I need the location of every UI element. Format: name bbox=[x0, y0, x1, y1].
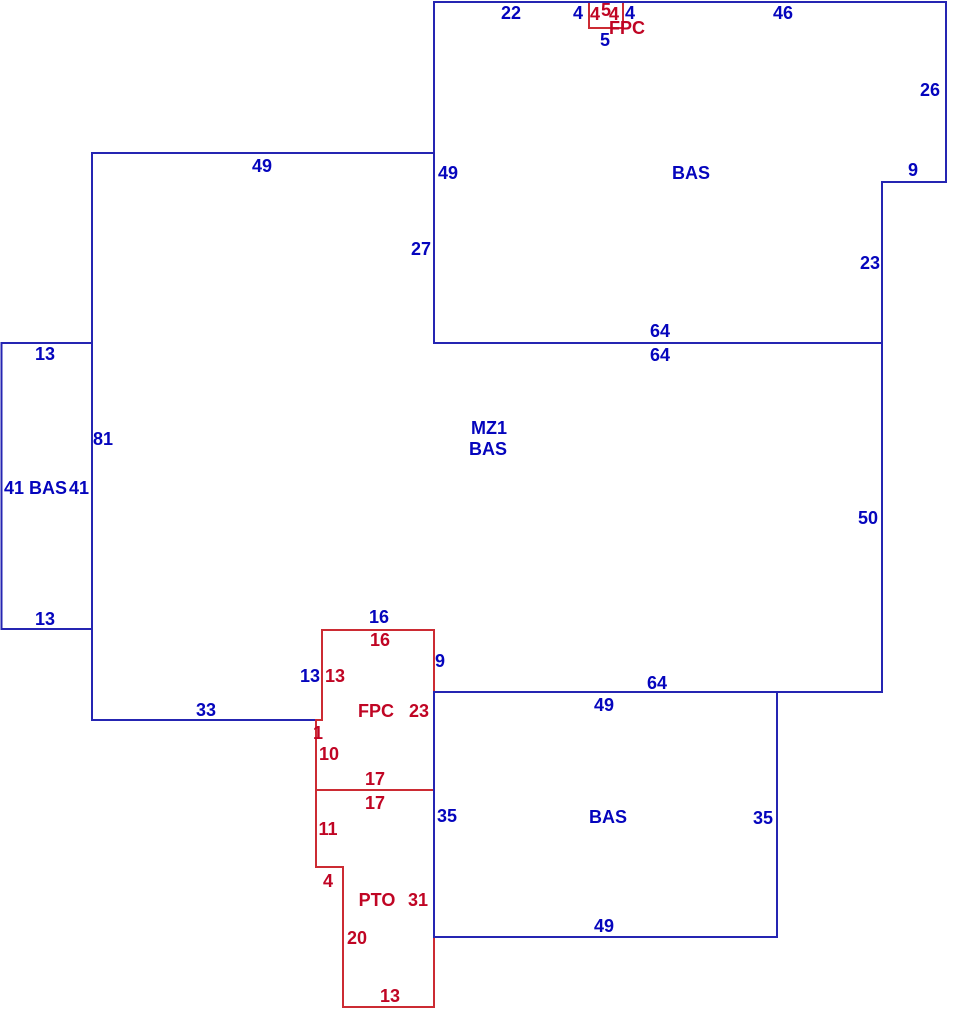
svg-text:33: 33 bbox=[196, 700, 216, 720]
svg-text:4: 4 bbox=[323, 871, 333, 891]
red FPC polygon bbox=[316, 630, 434, 790]
svg-text:23: 23 bbox=[860, 253, 880, 273]
svg-text:49: 49 bbox=[594, 916, 614, 936]
svg-text:81: 81 bbox=[93, 429, 113, 449]
svg-text:17: 17 bbox=[365, 793, 385, 813]
svg-text:13: 13 bbox=[380, 986, 400, 1006]
svg-text:9: 9 bbox=[435, 651, 445, 671]
svg-text:FPC: FPC bbox=[358, 701, 394, 721]
svg-text:35: 35 bbox=[753, 808, 773, 828]
svg-text:13: 13 bbox=[325, 666, 345, 686]
svg-text:49: 49 bbox=[594, 695, 614, 715]
red PTO polygon bbox=[316, 790, 434, 1007]
svg-text:9: 9 bbox=[908, 160, 918, 180]
blue left BAS rect bbox=[2, 343, 93, 629]
svg-text:16: 16 bbox=[369, 607, 389, 627]
svg-text:4: 4 bbox=[573, 3, 583, 23]
svg-text:31: 31 bbox=[408, 890, 428, 910]
svg-text:41: 41 bbox=[69, 478, 89, 498]
svg-text:11: 11 bbox=[318, 819, 337, 839]
svg-text:PTO: PTO bbox=[359, 890, 396, 910]
svg-text:49: 49 bbox=[252, 156, 272, 176]
svg-text:20: 20 bbox=[347, 928, 367, 948]
svg-text:64: 64 bbox=[650, 321, 670, 341]
svg-text:64: 64 bbox=[647, 673, 667, 693]
svg-text:1: 1 bbox=[313, 723, 323, 743]
svg-text:17: 17 bbox=[365, 769, 385, 789]
svg-text:MZ1: MZ1 bbox=[471, 418, 507, 438]
svg-text:13: 13 bbox=[300, 666, 320, 686]
svg-text:35: 35 bbox=[437, 806, 457, 826]
svg-text:64: 64 bbox=[650, 345, 670, 365]
svg-text:13: 13 bbox=[35, 609, 55, 629]
svg-text:27: 27 bbox=[411, 239, 431, 259]
svg-text:13: 13 bbox=[35, 344, 55, 364]
svg-text:22: 22 bbox=[501, 3, 521, 23]
svg-text:10: 10 bbox=[319, 744, 339, 764]
svg-text:BAS: BAS bbox=[469, 439, 507, 459]
red top FPC box bbox=[589, 2, 623, 28]
svg-text:5: 5 bbox=[600, 30, 610, 50]
svg-text:4: 4 bbox=[590, 4, 600, 24]
svg-text:49: 49 bbox=[438, 163, 458, 183]
svg-text:4: 4 bbox=[625, 3, 635, 23]
svg-text:BAS: BAS bbox=[589, 807, 627, 827]
svg-text:50: 50 bbox=[858, 508, 878, 528]
svg-text:23: 23 bbox=[409, 701, 429, 721]
svg-text:BAS: BAS bbox=[672, 163, 710, 183]
svg-text:BAS: BAS bbox=[29, 478, 67, 498]
svg-text:16: 16 bbox=[370, 630, 390, 650]
blue top BAS polygon bbox=[434, 2, 946, 343]
blue MZ1 polygon bbox=[92, 153, 882, 720]
svg-text:41: 41 bbox=[4, 478, 24, 498]
blue bottom BAS rect bbox=[434, 692, 777, 937]
svg-text:46: 46 bbox=[773, 3, 793, 23]
svg-text:26: 26 bbox=[920, 80, 940, 100]
